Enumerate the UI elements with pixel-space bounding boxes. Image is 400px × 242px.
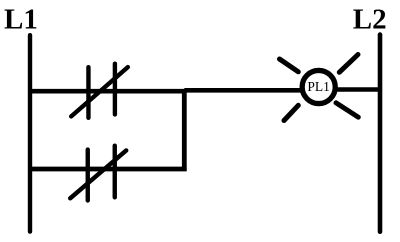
NC contact 2 (rung 2) [70, 146, 126, 201]
NC contact 1 (rung 1) [71, 64, 128, 118]
svg-text:L2: L2 [353, 3, 387, 35]
PL1 ray upper-left [280, 59, 299, 72]
power rail L2 (right vertical) [378, 35, 383, 232]
svg-text:PL1: PL1 [307, 79, 330, 94]
wire: rung 1 from rail L1 through contact to junction A [28, 89, 184, 94]
wire: rung 2 (parallel branch) from rail L1 through contact to junction [28, 167, 187, 172]
wire: rung 1 from junction A to pilot light PL1 [184, 88, 302, 93]
PL1 lamp circle [302, 70, 335, 103]
PL1 ray lower-left [284, 105, 298, 120]
wire: branch vertical at junction A [182, 89, 187, 171]
PL1 ray upper-right [339, 55, 358, 73]
pilot light PL1 [280, 55, 359, 121]
PL1 ray lower-right [336, 103, 358, 117]
svg-text:L1: L1 [4, 3, 38, 35]
power rail L1 (left vertical) [28, 35, 32, 231]
wire: rung 1 from pilot light PL1 to rail L2 [336, 87, 379, 92]
